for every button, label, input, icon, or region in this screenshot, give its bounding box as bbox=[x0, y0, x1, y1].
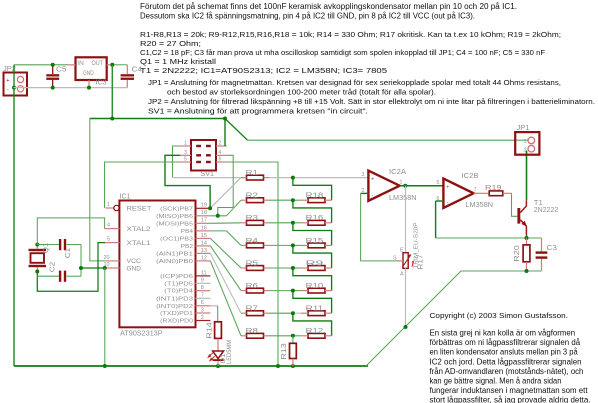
trimmer R17 bbox=[397, 253, 414, 269]
resistor R19 bbox=[489, 191, 511, 196]
svg-text:E: E bbox=[400, 248, 404, 254]
note text block JP1 JP2 SV1 bbox=[148, 78, 595, 115]
label IC1 pin 4 bbox=[107, 223, 110, 229]
svg-text:(SCK)PB7: (SCK)PB7 bbox=[160, 206, 193, 212]
svg-text:1: 1 bbox=[400, 180, 403, 186]
svg-text:(OC1)PB3: (OC1)PB3 bbox=[160, 236, 193, 242]
resistor R3 bbox=[241, 220, 269, 225]
label IC1 pin 10 bbox=[104, 262, 110, 268]
labels IC1 right pin numbers bbox=[201, 203, 207, 321]
wire node 6 bbox=[269, 290, 301, 292]
svg-text:R3: R3 bbox=[246, 213, 258, 222]
label SV1 pin numbers bbox=[184, 141, 222, 163]
svg-text:XTAL1: XTAL1 bbox=[127, 240, 151, 247]
svg-text:R11: R11 bbox=[306, 304, 324, 313]
junction node 4 bbox=[291, 243, 295, 247]
label IC2A pin 2 bbox=[362, 188, 365, 194]
svg-text:JP1: JP1 bbox=[517, 123, 530, 132]
svg-text:R7: R7 bbox=[246, 304, 258, 313]
capacitor C4 bbox=[121, 65, 134, 88]
svg-text:(RXD)PD0: (RXD)PD0 bbox=[160, 319, 193, 325]
wire node 3 bbox=[269, 222, 301, 224]
label R17 E bbox=[400, 248, 404, 254]
junction R17 GND on diagonal bbox=[404, 325, 408, 329]
svg-text:6: 6 bbox=[219, 157, 222, 163]
labels IC1 left pin names bbox=[127, 205, 152, 272]
svg-text:(INT1)PD3: (INT1)PD3 bbox=[156, 296, 193, 302]
wire IC2A output bbox=[400, 185, 444, 187]
pin IC1 4 XTAL2 bbox=[105, 228, 120, 230]
wire IC2B feedback bbox=[435, 201, 437, 238]
resistor R10 bbox=[301, 288, 332, 293]
label R7 bbox=[246, 304, 258, 313]
svg-text:R20: R20 bbox=[514, 245, 521, 262]
svg-text:Dessutom ska IC2 få spänningsm: Dessutom ska IC2 få spänningsmatning, pi… bbox=[140, 11, 475, 20]
wire VCC down from IC3 OUT bbox=[111, 65, 113, 119]
svg-text:A: A bbox=[400, 272, 404, 278]
svg-text:(AIN0)PB0: (AIN0)PB0 bbox=[156, 259, 193, 265]
svg-text:+: + bbox=[371, 177, 374, 183]
svg-text:förbättras om ni lågpassfiltre: förbättras om ni lågpassfiltrerar signal… bbox=[430, 338, 581, 347]
wire IC1 pin 12 to R8 bbox=[210, 261, 241, 336]
svg-text:En sista grej ni kan kolla är: En sista grej ni kan kolla är om vågform… bbox=[430, 329, 576, 338]
wire IC2B output bbox=[474, 192, 490, 194]
label R11 bbox=[306, 304, 324, 313]
wire XTAL2 net bbox=[37, 218, 104, 245]
label C2 bbox=[50, 262, 57, 273]
resistor R18 bbox=[301, 198, 332, 203]
copyright text bbox=[430, 311, 569, 320]
svg-text:R18: R18 bbox=[306, 191, 324, 200]
wire VCC rail bbox=[90, 118, 225, 120]
label JP2 bbox=[3, 64, 16, 73]
svg-text:IN: IN bbox=[77, 60, 84, 67]
resistor R9 bbox=[301, 266, 332, 271]
resistor R4 bbox=[241, 243, 269, 248]
label SV1 bbox=[201, 169, 214, 178]
wire node 8 bbox=[269, 335, 301, 337]
svg-text:R4: R4 bbox=[246, 236, 258, 245]
svg-text:R12: R12 bbox=[306, 326, 324, 335]
svg-text:C2: C2 bbox=[50, 262, 57, 273]
wire IC2B minus input bbox=[436, 200, 444, 202]
svg-text:RESET: RESET bbox=[127, 205, 152, 212]
svg-text:AT90S2313P: AT90S2313P bbox=[120, 331, 163, 338]
note text block top bbox=[140, 2, 517, 20]
junction VCC rail at SV1 bbox=[223, 117, 227, 121]
junction VCC rail at IC3 bbox=[110, 117, 114, 121]
junction crystal bottom bbox=[35, 270, 39, 274]
regulator IC3 bbox=[76, 57, 107, 80]
op-amp IC2B bbox=[443, 179, 473, 208]
wire node 1 gray R1 to opamp bbox=[269, 177, 368, 179]
svg-text:JP2 = Anslutning för filtrerad: JP2 = Anslutning för filtrerad likspänni… bbox=[148, 97, 595, 106]
svg-text:R17: R17 bbox=[418, 254, 425, 269]
label JP1 pin 2 bbox=[524, 148, 527, 154]
svg-text:stort lågpassfilter, så jag pr: stort lågpassfilter, så jag provade aldr… bbox=[430, 395, 591, 403]
label R15 bbox=[306, 236, 324, 245]
svg-text:R2: R2 bbox=[246, 191, 258, 200]
wire SV1 pin 1 to SCK net bbox=[173, 146, 181, 178]
label IC1 pin 1 bbox=[107, 202, 110, 208]
label R17 bbox=[418, 254, 425, 269]
label IC3 bbox=[96, 78, 107, 87]
junction node 5 bbox=[291, 266, 295, 270]
wire chain hook R18 bbox=[293, 178, 332, 201]
label IC1 bbox=[120, 191, 131, 200]
wire SV1 pin 3 to IC1 pin 19 bbox=[165, 155, 210, 208]
junction IC1 pin 19 bbox=[208, 206, 212, 210]
svg-text:SV1: SV1 bbox=[201, 169, 214, 178]
wire node 2 bbox=[269, 199, 301, 201]
label IC2A bbox=[389, 167, 406, 176]
svg-text:S: S bbox=[393, 256, 397, 262]
svg-text:R8: R8 bbox=[246, 326, 258, 335]
label R17 S bbox=[393, 256, 397, 262]
svg-text:C3: C3 bbox=[547, 243, 558, 252]
wire GND down to rail bbox=[104, 268, 106, 366]
resistor R16 bbox=[301, 220, 332, 225]
svg-text:4: 4 bbox=[219, 150, 222, 156]
svg-text:5: 5 bbox=[184, 157, 187, 163]
wire VCC to JP1 pin 1 bbox=[248, 139, 528, 141]
svg-text:(ICP)PD6: (ICP)PD6 bbox=[160, 274, 193, 280]
svg-text:9: 9 bbox=[201, 278, 204, 284]
resistor R20 bbox=[523, 245, 530, 271]
connector SV1 bbox=[191, 140, 216, 171]
svg-text:GND: GND bbox=[83, 70, 94, 77]
svg-text:C1: C1 bbox=[65, 248, 72, 259]
svg-text:17: 17 bbox=[201, 218, 207, 224]
resistor R5 bbox=[241, 266, 269, 271]
label R20 bbox=[514, 245, 521, 262]
svg-text:och bestod av storleksordninge: och bestod av storleksordningen 100-200 … bbox=[167, 88, 436, 97]
labels IC1 right pin names bbox=[156, 206, 194, 324]
svg-text:R6: R6 bbox=[246, 281, 258, 290]
svg-text:LED5MM: LED5MM bbox=[226, 340, 233, 364]
svg-text:Q1 = 1 MHz kristall: Q1 = 1 MHz kristall bbox=[140, 57, 216, 66]
svg-text:en liten kondensator ansluts m: en liten kondensator ansluts mellan pin … bbox=[430, 348, 579, 357]
junction GND at pin 10 bbox=[103, 266, 107, 270]
svg-text:T1 = 2N2222; IC1=AT90S2313;: T1 = 2N2222; IC1=AT90S2313; IC2 = LM358N… bbox=[140, 66, 387, 75]
svg-text:(MISO)PB6: (MISO)PB6 bbox=[156, 214, 193, 220]
svg-text:2: 2 bbox=[219, 141, 222, 147]
ic IC1 box bbox=[119, 201, 195, 328]
wire R14 to LED bbox=[217, 338, 219, 351]
svg-text:5: 5 bbox=[437, 180, 440, 186]
junction GND rail at SV1 pin6 wire bbox=[276, 364, 280, 368]
label IC2B LM358N bbox=[466, 200, 494, 209]
junction node 8 bbox=[291, 334, 295, 338]
junction crystal top bbox=[35, 243, 39, 247]
svg-text:R14: R14 bbox=[207, 322, 214, 339]
svg-text:LM358N: LM358N bbox=[389, 193, 417, 202]
wire SV1 pin 5 to RESET bbox=[105, 162, 181, 208]
connector JP1 bbox=[515, 132, 539, 155]
wire XTAL1 net bbox=[37, 243, 105, 292]
wire IC1 pin 6 to R14 bbox=[210, 306, 217, 322]
svg-text:PB2: PB2 bbox=[181, 244, 193, 250]
resistor R8 bbox=[241, 333, 269, 338]
label R5 bbox=[246, 258, 258, 267]
wire chain hook R12 bbox=[293, 313, 332, 336]
label C1 bbox=[65, 248, 72, 259]
svg-text:C1,C2 = 18 pF; C3 får man pro: C1,C2 = 18 pF; C3 får man prova ut mha o… bbox=[140, 48, 545, 57]
junction node 3 bbox=[291, 221, 295, 225]
label R17 A bbox=[400, 272, 404, 278]
svg-text:från AD-omvandlaren (motstånds: från AD-omvandlaren (motstånds-nätet), o… bbox=[430, 367, 584, 376]
junction node 6 bbox=[291, 289, 295, 293]
wire SV1 pin 1 to R1 bbox=[173, 177, 247, 179]
crystal Q1 bbox=[29, 245, 47, 272]
svg-text:3: 3 bbox=[184, 150, 187, 156]
wire chain hook R16 bbox=[293, 200, 332, 223]
svg-text:C5: C5 bbox=[56, 65, 67, 74]
svg-text:7: 7 bbox=[474, 187, 477, 193]
label R17 TRIM bbox=[414, 222, 420, 268]
pins SV1 stubs bbox=[180, 146, 227, 162]
note text block bottom right bbox=[430, 329, 591, 403]
label IC2A pin 3 bbox=[362, 172, 365, 178]
label R10 bbox=[306, 281, 324, 290]
svg-text:fungerar induktansen i magnetm: fungerar induktansen i magnetmattan som … bbox=[430, 386, 589, 395]
wire chain hook R10 bbox=[293, 268, 332, 291]
wire IC1 pin 17 to R3 bbox=[210, 222, 241, 225]
label IC2B pin 7 bbox=[474, 187, 477, 193]
pin IC1 20 VCC bbox=[106, 260, 120, 262]
wire GND to IC1 pin 10 bbox=[81, 267, 105, 269]
label D1 bbox=[220, 353, 227, 363]
label JP1 pin 1 bbox=[524, 139, 527, 145]
svg-text:LM358N: LM358N bbox=[466, 200, 494, 209]
svg-text:3: 3 bbox=[201, 307, 204, 313]
label R6 bbox=[246, 281, 258, 290]
svg-text:(TXD)PD1: (TXD)PD1 bbox=[160, 311, 193, 317]
capacitor C3 bbox=[536, 238, 548, 271]
svg-text:kan ge bättre signal. Men å an: kan ge bättre signal. Men å andra sidan bbox=[430, 376, 562, 385]
wire node 4 bbox=[269, 244, 301, 246]
pin IC3 OUT bbox=[107, 64, 113, 66]
svg-text:1: 1 bbox=[107, 202, 110, 208]
svg-text:2: 2 bbox=[201, 315, 204, 321]
junction C5 top bbox=[51, 63, 55, 67]
svg-text:(T0)PD4: (T0)PD4 bbox=[164, 289, 194, 295]
junction GND rail at R13 bbox=[291, 364, 295, 368]
label R2 bbox=[246, 191, 258, 200]
label IC2B pin 5 bbox=[437, 180, 440, 186]
svg-text:R20 = 27 Ohm;: R20 = 27 Ohm; bbox=[140, 39, 201, 48]
svg-text:18: 18 bbox=[201, 210, 207, 216]
junction IC3 OUT bbox=[110, 63, 114, 67]
wire VCC to IC1 pin 20 bbox=[90, 119, 106, 261]
svg-text:Förutom det på schemat finns d: Förutom det på schemat finns det 100nF k… bbox=[140, 2, 517, 11]
label IC2A LM358N bbox=[389, 193, 417, 202]
svg-text:IC2A: IC2A bbox=[389, 167, 406, 176]
junction emitter node bbox=[525, 236, 529, 240]
label R4 bbox=[246, 236, 258, 245]
svg-text:(AIN1)PB1: (AIN1)PB1 bbox=[156, 251, 193, 257]
label R8 bbox=[246, 326, 258, 335]
label R3 bbox=[246, 213, 258, 222]
wire node 8 to R13 bbox=[292, 336, 294, 344]
label IC2A pin 1 bbox=[400, 180, 403, 186]
wire JP2 minus down to GND rail bbox=[13, 65, 15, 366]
svg-text:IC1: IC1 bbox=[120, 191, 131, 200]
junction GND rail at IC1 bbox=[103, 364, 107, 368]
wire IC2A feedback to R17 wiper bbox=[361, 193, 400, 261]
wire emitter to R20 bbox=[526, 238, 528, 245]
label 2N2222 bbox=[534, 205, 559, 214]
junction IC1 pin 18 bbox=[216, 214, 220, 218]
transistor T1 bbox=[517, 200, 527, 234]
svg-text:IC2 och jord. Detta lågpassfil: IC2 och jord. Detta lågpassfiltrerar sig… bbox=[430, 357, 582, 366]
svg-text:(INT0)PD2: (INT0)PD2 bbox=[156, 304, 193, 310]
op-amp IC2A bbox=[368, 171, 399, 201]
svg-text:(T1)PD5: (T1)PD5 bbox=[164, 281, 193, 287]
label R12 bbox=[306, 326, 324, 335]
wire VCC diagonal to JP1 line bbox=[225, 119, 248, 141]
junction IC3 GND bbox=[87, 86, 91, 90]
label IC2B bbox=[462, 171, 479, 180]
svg-text:2: 2 bbox=[524, 148, 527, 154]
capacitor C2 bbox=[37, 271, 81, 282]
label R14 bbox=[207, 322, 214, 339]
wire bottom node bbox=[461, 270, 542, 272]
svg-text:13: 13 bbox=[201, 248, 207, 254]
junction node 2 bbox=[291, 198, 295, 202]
svg-text:VCC: VCC bbox=[127, 258, 142, 265]
svg-text:14: 14 bbox=[201, 240, 207, 246]
svg-text:4: 4 bbox=[107, 223, 110, 229]
junction JP2 minus bbox=[12, 86, 16, 90]
svg-text:12: 12 bbox=[201, 255, 207, 261]
connector JP2 bbox=[4, 73, 28, 96]
svg-text:7: 7 bbox=[201, 293, 204, 299]
pin IC1 10 GND bbox=[105, 267, 120, 269]
svg-text:IC3: IC3 bbox=[96, 78, 107, 87]
junction R20 bottom bbox=[525, 269, 529, 273]
resistor R15 bbox=[301, 243, 332, 248]
label C4 bbox=[132, 65, 143, 74]
resistor R14 bbox=[215, 322, 222, 339]
led D1 bbox=[208, 351, 223, 366]
wire SV1 pin 4 to IC1 pin 18 bbox=[218, 155, 233, 216]
resistor R1 bbox=[241, 175, 269, 180]
label IC2B pin 6 bbox=[437, 196, 440, 202]
label R18 bbox=[306, 191, 324, 200]
svg-text:6: 6 bbox=[201, 300, 204, 306]
wire chain hook R11 bbox=[293, 291, 332, 314]
svg-text:-: - bbox=[447, 200, 449, 206]
svg-text:16: 16 bbox=[201, 225, 207, 231]
pin IC3 IN bbox=[68, 64, 76, 66]
label JP1 bbox=[517, 123, 530, 132]
junction C5 bottom bbox=[51, 86, 55, 90]
svg-text:R5: R5 bbox=[246, 258, 258, 267]
resistor R11 bbox=[301, 311, 332, 316]
label C5 bbox=[56, 65, 67, 74]
svg-text:(MOSI)PB5: (MOSI)PB5 bbox=[156, 221, 193, 227]
pin IC1 5 XTAL1 bbox=[105, 242, 120, 244]
svg-text:IC2B: IC2B bbox=[462, 171, 479, 180]
svg-text:8: 8 bbox=[201, 285, 204, 291]
resistor R6 bbox=[241, 288, 269, 293]
wire GND diagonal bbox=[366, 271, 461, 366]
wire IC1 pin 18 to R2 bbox=[210, 200, 241, 216]
capacitor C1 bbox=[37, 239, 81, 250]
wire R17 bottom to GND bbox=[405, 268, 407, 327]
junction C1 C2 GND bbox=[79, 266, 83, 270]
label R19 bbox=[485, 183, 502, 192]
svg-text:R15: R15 bbox=[306, 236, 324, 245]
svg-text:+: + bbox=[446, 184, 449, 190]
wire node 5 bbox=[269, 267, 301, 269]
label IC1 pin 5 bbox=[107, 237, 110, 243]
wire R19 to T1 base bbox=[512, 193, 518, 216]
resistor R7 bbox=[241, 311, 269, 316]
svg-text:R9: R9 bbox=[306, 258, 324, 267]
wire node 7 bbox=[269, 312, 301, 314]
svg-text:R19: R19 bbox=[485, 183, 502, 192]
pin IC1 1 RESET bbox=[106, 205, 120, 210]
svg-text:R16: R16 bbox=[306, 213, 324, 222]
wire IC2A output to R17 top bbox=[405, 186, 407, 253]
svg-text:R13: R13 bbox=[281, 343, 288, 360]
label R13 bbox=[281, 343, 288, 360]
resistor R12 bbox=[301, 333, 332, 338]
svg-text:+: + bbox=[6, 78, 9, 84]
wire IC1 pin 15 to R5 bbox=[210, 238, 241, 268]
wire C1 C2 to GND bbox=[80, 245, 82, 277]
wire JP2 plus to C5 and IC3 IN bbox=[14, 64, 68, 66]
label T1 bbox=[534, 198, 543, 207]
wire IC1 pin 19 diagonal to R1 bbox=[210, 178, 241, 209]
svg-text:1: 1 bbox=[524, 139, 527, 145]
wire GND rail bbox=[14, 365, 368, 367]
pins IC1 right stubs bbox=[196, 208, 211, 320]
label C3 bbox=[547, 243, 558, 252]
svg-text:5: 5 bbox=[107, 237, 110, 243]
junction GND rail at LED bbox=[216, 364, 220, 368]
label AT90S2313P bbox=[120, 331, 163, 338]
svg-text:-: - bbox=[372, 192, 374, 198]
wire IC1 pin 14 to R6 bbox=[210, 246, 241, 291]
pin IC3 GND bbox=[88, 80, 90, 88]
junction node 7 bbox=[291, 311, 295, 315]
svg-text:SV1 = Anslutning för att progr: SV1 = Anslutning för att programmera kre… bbox=[148, 106, 368, 115]
wire SV1 pin 2 to VCC bbox=[224, 119, 226, 147]
junction node 1 bbox=[291, 176, 295, 180]
svg-text:3: 3 bbox=[362, 172, 365, 178]
junction IC2A output bbox=[403, 184, 407, 188]
svg-text:15: 15 bbox=[201, 233, 207, 239]
svg-text:2N2222: 2N2222 bbox=[534, 205, 559, 214]
label LED5MM bbox=[226, 340, 233, 364]
svg-text:1: 1 bbox=[184, 141, 187, 147]
wire IC1 pin 16 to R4 bbox=[210, 231, 241, 246]
label Q1 bbox=[43, 243, 50, 254]
note text block component values bbox=[140, 30, 561, 75]
svg-text:-: - bbox=[7, 87, 9, 93]
wire chain hook R9 bbox=[293, 245, 332, 268]
svg-text:C4: C4 bbox=[132, 65, 143, 74]
wire T1 emitter down bbox=[526, 235, 528, 239]
svg-text:20: 20 bbox=[104, 255, 110, 261]
label R1 bbox=[246, 168, 258, 177]
wire IC3 OUT to C4 bbox=[112, 64, 127, 66]
svg-text:GND: GND bbox=[127, 265, 142, 272]
label IC1 pin 20 bbox=[104, 255, 110, 261]
